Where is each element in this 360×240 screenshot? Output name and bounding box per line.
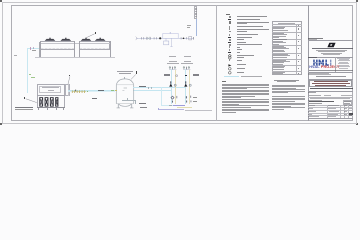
note line 8 [222, 93, 270, 96]
tb cell text 7 [344, 107, 347, 110]
pipe label DN50 drain [139, 103, 146, 105]
legend symbol 4 [228, 26, 231, 28]
riser drain note [169, 105, 172, 106]
riser tag text 4 [195, 12, 197, 15]
legend symbol 19 [228, 67, 232, 71]
AHU discharge plenum [65, 84, 70, 96]
chiller module 2 body [79, 41, 111, 50]
riser fitting label Fa 2 [193, 101, 197, 103]
tb rule fields [308, 96, 354, 99]
rev row 1 text 3 [273, 29, 288, 32]
rev row 6 mark [298, 61, 300, 62]
AHU foot 3 [56, 108, 57, 110]
rev row 1 mark [298, 28, 300, 29]
scale cell box [343, 100, 352, 105]
issue note B3 [272, 98, 305, 101]
caption underline [15, 108, 34, 111]
legend symbol 6b [229, 31, 232, 33]
legend text 20 [237, 72, 244, 73]
riser assembly A pump [169, 81, 178, 88]
rev row 5 text 3 [273, 56, 287, 59]
pipe CHWS main run [68, 90, 116, 91]
contractor label [308, 57, 317, 58]
contractor addr 4 [339, 61, 348, 64]
issue note B8 [272, 106, 305, 109]
rev row 3 mark [298, 41, 300, 42]
level text green a [29, 74, 32, 75]
project title box [309, 80, 353, 88]
gauge symbol yellow at tank [115, 90, 116, 91]
note line 14 [222, 103, 239, 106]
rev table rule y44.8 [272, 44, 302, 47]
HML logo [313, 59, 333, 67]
issue note A5 [272, 90, 306, 93]
legend symbol 14 [228, 52, 231, 54]
legend text 3 [237, 22, 269, 23]
legend symbol 17 [228, 59, 231, 61]
legend symbol 18 [228, 64, 232, 67]
AHU plenum inner line [67, 84, 69, 96]
legend text 14 [237, 52, 240, 53]
issue note B4 [272, 100, 295, 103]
legend cyan band [224, 76, 239, 77]
tb field b2 [324, 95, 331, 96]
issue note B5 [272, 102, 305, 105]
rev row 3 text 4 [273, 43, 279, 46]
note line 6 [222, 90, 270, 93]
contractor addr 1 [337, 57, 350, 60]
valve train at AHU connection [71, 89, 89, 94]
contractor cell divider [334, 57, 337, 72]
drawing number sub [349, 115, 352, 116]
tank overflow tick [126, 98, 129, 100]
rev table header line 2 [278, 22, 295, 25]
legend text 6 [237, 31, 247, 32]
AHU outer casing [37, 84, 65, 108]
issue note A4 [272, 88, 306, 91]
tb cell text 16 [328, 115, 336, 118]
tb top text 2 [308, 38, 317, 41]
rev table column rule [295, 24, 298, 75]
tb cell text 5 [308, 107, 313, 110]
legend text 2 [237, 19, 260, 20]
employer line bold [310, 88, 353, 89]
rev row 5 mark [298, 55, 300, 56]
drawing title sub [309, 103, 322, 104]
riser assembly A pipe CHWS vertical [170, 69, 173, 104]
rev row 2 text 3 [273, 35, 286, 38]
chiller support post left [40, 41, 41, 56]
corner tick top-right [356, 0, 358, 2]
legend text 12 [237, 47, 240, 48]
pipe tank outlet [133, 86, 185, 89]
corner tick bottom-right [356, 123, 358, 125]
note line 1 [222, 83, 270, 86]
riser assembly A label line 1 [169, 61, 177, 62]
legend symbol 11a [228, 44, 231, 46]
project title line 2 [312, 82, 350, 85]
rev row 2 mark [298, 35, 300, 36]
caption AHU detail [15, 107, 34, 108]
project title line 3 [315, 84, 347, 87]
tb cell text 8 [349, 107, 352, 110]
tb grid col x339.9 [339, 105, 342, 118]
dimension text chiller a [32, 48, 38, 49]
riser assembly A label line 2 [167, 63, 179, 64]
tb grid rule y107.4 [308, 106, 354, 109]
legend text 5 [237, 29, 269, 30]
pipe CHW chiller stub [27, 47, 39, 50]
tb cell text 12 [308, 113, 312, 116]
pipe label DN50 tank outlet [139, 86, 146, 88]
rev row 6 text 4 [273, 63, 283, 66]
rev table rule y26.2 [272, 25, 302, 28]
tb grid rule y110.2 [308, 109, 354, 112]
keynote 1 label [24, 97, 25, 99]
riser tag text 2 [195, 8, 197, 11]
AHU base rail [37, 106, 65, 109]
AHU nameplate text line 1 [42, 87, 60, 88]
note line 19 [222, 111, 236, 114]
tb project ref 2 [308, 73, 331, 76]
riser assembly A label line 0 [169, 56, 176, 57]
drawing number cell [349, 113, 353, 115]
rev row 2 text 1 [273, 32, 284, 35]
pipe label DN25 upper [98, 90, 104, 92]
corner tick top-left [0, 0, 2, 2]
chiller condenser fans [38, 36, 113, 44]
legend text 13 [237, 49, 242, 50]
status text centered 1 [274, 80, 299, 81]
legend symbol 8 [228, 37, 231, 39]
condensate header line [159, 108, 184, 111]
level label AHJ [14, 55, 18, 56]
tb rule below employer [308, 90, 354, 93]
rev row 4 text 2 [273, 46, 286, 49]
chiller support post mid-left [74, 41, 75, 56]
tb cell text 2 [328, 104, 339, 107]
tb cell text 1 [308, 104, 315, 107]
rev row 1 text 2 [273, 27, 284, 30]
rev table rule y53.2 [272, 52, 302, 55]
riser assembly A pipe CHWR vertical [174, 70, 177, 105]
riser assembly A top fittings [168, 66, 178, 71]
gauge symbol green at tank [111, 90, 114, 92]
AHU nameplate text line 2 [48, 90, 54, 91]
rev row 5 text 1 [273, 53, 287, 56]
legend text 10 [237, 42, 246, 43]
HVAL PROJECT wordmark [309, 66, 339, 70]
riser B label DN50 [193, 74, 199, 76]
tb grid rule y104.6 [308, 104, 354, 107]
riser A label DN50 [164, 74, 170, 76]
tank overflow pipe [122, 99, 136, 102]
notes header [222, 81, 226, 82]
scale cell text 2 [344, 102, 349, 105]
consultant addr 2 [318, 50, 345, 53]
riser tag text 1 [195, 7, 197, 10]
legend symbol 7 [228, 34, 231, 36]
tb field b1 [309, 95, 321, 96]
riser tag text 6 [195, 15, 197, 18]
rev row 8 mark [298, 73, 300, 74]
valve mark 2 on chiller stub [32, 47, 35, 49]
AHU top panel [39, 86, 62, 93]
note line 18 [222, 109, 270, 112]
note line 2 [222, 84, 270, 87]
rev row 7 text 2 [273, 66, 284, 69]
tank label line 2 [119, 73, 131, 74]
issue note A1 [272, 84, 306, 87]
rev table rule y71.2 [272, 70, 302, 73]
tb field c [310, 98, 350, 99]
tb rule project [308, 71, 354, 74]
rev table rule y24.4 [272, 23, 302, 26]
project title line 1 [314, 80, 348, 83]
pipe label DN50 drain 2 [140, 107, 147, 108]
rev row 3 text 3 [273, 41, 286, 44]
tb cell text 9 [308, 110, 316, 113]
chiller body top rail [40, 42, 111, 44]
pipe CHWR main run [68, 90, 115, 93]
legend symbol 10 [228, 42, 231, 44]
legend symbol 12 [228, 46, 231, 48]
legend title [226, 14, 231, 15]
note line 4 [222, 87, 247, 90]
tb tender ref centered [316, 76, 347, 77]
note line 16 [222, 106, 251, 109]
issue note B9 [272, 108, 284, 111]
riser gray header line [185, 109, 213, 112]
tank label line 1 [117, 71, 133, 72]
legend text 17 [237, 60, 242, 61]
rev row 4 mark [298, 48, 300, 49]
pipe CHW riser drop [26, 48, 29, 92]
riser bottom header pipe [173, 104, 186, 107]
legend symbol 2 [228, 19, 231, 21]
leader to keynote 4 [130, 74, 137, 80]
rev row 8 text 2 [273, 72, 282, 75]
chiller support post right [110, 41, 111, 56]
tb rule contractor [308, 56, 354, 59]
legend text 3 line2 [237, 23, 248, 24]
rev row 4 text 5 [273, 50, 285, 53]
chiller module 1 body [40, 41, 75, 50]
valve tick on outlet 2 [150, 87, 153, 89]
legend symbol 6a [228, 31, 231, 33]
tank vent tick [123, 77, 126, 79]
legend text 18 [237, 64, 246, 65]
legend symbol 1a [228, 16, 231, 18]
consultant name line [312, 48, 353, 49]
tb grid bottom [308, 117, 354, 120]
legend symbol 16 [228, 56, 232, 60]
riser yellow header [177, 106, 192, 109]
rev row 7 mark [298, 68, 300, 69]
tb top text 1 [308, 38, 323, 39]
note line 7 [222, 92, 270, 95]
tb field b3 [341, 95, 352, 96]
rev row 3 text 1 [273, 38, 287, 41]
legend symbol 3 [229, 21, 232, 23]
contractor addr 5 [338, 62, 350, 65]
leader to keynote 2 [66, 76, 72, 85]
riser A gauge ring [175, 74, 179, 78]
tb cell text 14 [344, 113, 347, 116]
rev row 4 text 1 [273, 45, 284, 48]
dimension text chiller b [32, 49, 37, 52]
inner sheet border [11, 5, 354, 121]
AHU mid rail [37, 94, 65, 97]
note line 3 [222, 86, 270, 89]
pipe CHW return drop [160, 87, 163, 105]
valve tick on outlet 1 [147, 87, 150, 89]
tb cell text 6 [328, 107, 336, 110]
legend text 8 [237, 37, 252, 38]
riser tag text 5 [195, 13, 197, 16]
rev table rule y38.6 [272, 38, 302, 41]
tb rule above project box [308, 78, 354, 81]
rev table rule y65.2 [272, 64, 302, 67]
issue note B6 [272, 103, 305, 106]
tb field a [308, 92, 316, 93]
legend text 16 [237, 57, 244, 58]
water softener tank [114, 77, 138, 110]
issue note A2 [272, 85, 306, 88]
keynote 4 label [136, 71, 137, 74]
tb cell text 3 [344, 104, 347, 107]
contractor addr 2 [339, 58, 349, 61]
note line 9 [222, 95, 255, 98]
rev row 6 text 3 [273, 61, 283, 64]
keynote 3 label [95, 32, 96, 34]
tb grid rule y115.4 [308, 114, 354, 117]
riser tag stack [194, 6, 197, 19]
legend cyan band text [241, 76, 262, 77]
contractor addr 7 [337, 65, 350, 68]
contractor bottom line [309, 69, 353, 72]
consultant addr 4 [323, 53, 340, 56]
riser tag label a [187, 25, 191, 26]
rev row 7 text 3 [273, 68, 284, 71]
tb cell text 11 [344, 110, 347, 113]
issue note B1 [272, 95, 305, 98]
divider title block [307, 5, 310, 121]
riser B junction dot [185, 75, 187, 77]
issue note B2 [272, 97, 305, 100]
rev row 2 text 4 [273, 36, 279, 39]
rev row 7 text 1 [273, 65, 285, 68]
riser assembly B pipe CHWS vertical [184, 69, 187, 104]
legend text 4 [237, 26, 263, 27]
tb project ref 1 [308, 72, 329, 75]
tb cell text 15 [308, 115, 319, 118]
note line 13 [222, 101, 270, 104]
AHU foot 1 [38, 108, 39, 110]
tb field d [308, 100, 322, 101]
corner tick bottom-left [0, 123, 2, 125]
legend text 11 [237, 44, 262, 45]
drawing title bold [309, 101, 334, 102]
leader to keynote 3 [85, 32, 97, 39]
legend text 19 [237, 68, 245, 69]
riser assembly B label line 1 [184, 61, 192, 62]
tank drain drop [134, 100, 137, 104]
AHU foot 2 [47, 108, 48, 110]
contractor addr 8 [339, 67, 348, 70]
consultant addr 3 [321, 52, 342, 55]
revision table frame [272, 21, 302, 76]
legend symbol 9b [229, 39, 232, 41]
legend text 7 [237, 34, 258, 35]
valve mark on chiller stub [29, 47, 32, 50]
status text centered 2 [277, 80, 296, 83]
riser assembly B label line 0 [184, 56, 191, 57]
riser tag drop line [195, 19, 198, 37]
riser fitting label Fa 1 [193, 97, 197, 99]
legend symbol 5 [228, 28, 231, 30]
divider legend column [215, 5, 218, 121]
issue note B7 [272, 105, 291, 108]
pump line schematic [134, 31, 198, 49]
leader to keynote 1 [25, 98, 38, 104]
legend symbol 13 [228, 49, 231, 51]
contractor addr 3 [338, 59, 350, 62]
tb cell text 10 [329, 110, 339, 113]
riser assembly B top fittings [182, 66, 192, 71]
rev row 4 text 4 [273, 49, 284, 52]
dimension line chiller left [38, 42, 41, 57]
pipe label DN25 lower [92, 98, 97, 100]
riser assembly B label line 2 [181, 63, 193, 64]
rev row 2 text 2 [273, 33, 287, 36]
legend symbol 11b [229, 44, 232, 46]
outer sheet border [2, 2, 357, 124]
note line 5 [222, 89, 270, 92]
riser tag label b [187, 27, 190, 28]
legend symbol 15 [228, 54, 232, 58]
legend symbol 1b [229, 16, 232, 18]
riser assembly B pump [184, 81, 193, 88]
chiller coil hatch [40, 48, 111, 51]
consultant addr 1 [316, 49, 347, 52]
rev header mark [298, 25, 299, 26]
tb rule consultants [308, 39, 354, 42]
legend text 9 [237, 39, 244, 40]
contractor addr 6 [339, 64, 349, 67]
rev row 5 text 2 [273, 54, 290, 57]
legend text 15 [237, 55, 254, 56]
issue note A3 [272, 87, 296, 90]
tb cell text 4 [349, 104, 352, 107]
tb grid rule y112.9 [308, 112, 354, 115]
pipe CHWS main run right [133, 89, 171, 92]
chiller support post mid-right [79, 41, 80, 56]
riser tag text 3 [195, 10, 197, 13]
scale cell text 1 [344, 100, 351, 103]
level text green b [31, 77, 36, 78]
rev table rule y58.8 [272, 58, 302, 61]
AHU foot 4 [63, 108, 64, 110]
rev row 6 text 1 [273, 59, 286, 62]
tb grid col x343.5 [343, 105, 346, 118]
AHU coil section [37, 96, 65, 108]
tb grid col x326.8 [326, 105, 329, 118]
note line 17 [222, 108, 270, 111]
ground line [35, 56, 115, 59]
legend symbol 9a [228, 39, 231, 41]
rev row 6 text 2 [273, 60, 290, 63]
